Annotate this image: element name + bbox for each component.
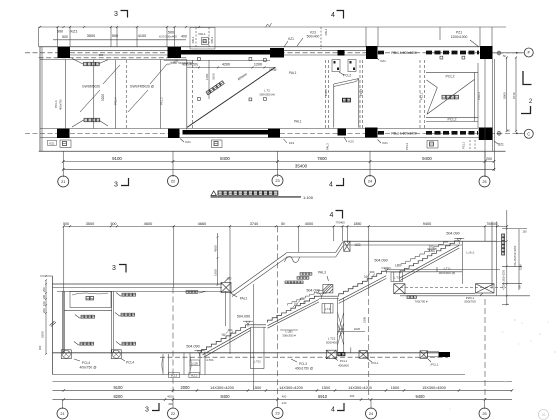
svg-text:PAL1: PAL1 [198, 32, 205, 36]
left bay mid wall double [111, 291, 113, 352]
section right wall of left bay [225, 291, 227, 326]
below ground wall brackets second [183, 353, 185, 375]
svg-text:L.T2: L.T2 [394, 276, 400, 280]
svg-text:504.090: 504.090 [374, 258, 387, 262]
stair flight trapezoid outline mid bay [333, 84, 335, 128]
svg-text:KZ1: KZ1 [382, 141, 388, 145]
svg-text:2600: 2600 [41, 331, 45, 338]
svg-text:1850: 1850 [354, 222, 362, 226]
svg-text:GWSFM5026 @: GWSFM5026 @ [130, 85, 155, 89]
left wall top stub [40, 275, 53, 277]
PAL1 slab outline above beam [190, 28, 215, 50]
svg-text:4200: 4200 [222, 63, 230, 67]
plan outline top wall [39, 46, 480, 48]
svg-text:PWL3: PWL3 [477, 92, 481, 100]
stair flight 4 background parallel steps [401, 242, 448, 266]
svg-text:400x1750 @: 400x1750 @ [295, 366, 313, 370]
section marker 2 upper elbow [523, 71, 532, 85]
svg-text:4100: 4100 [138, 34, 146, 38]
svg-text:4: 4 [331, 407, 335, 414]
svg-text:PCL4: PCL4 [126, 360, 134, 364]
svg-text:5200: 5200 [101, 94, 105, 101]
svg-text:9100: 9100 [112, 156, 122, 161]
svg-text:PAL1: PAL1 [289, 71, 297, 75]
svg-text:7800: 7800 [317, 156, 327, 161]
svg-text:8400: 8400 [220, 156, 230, 161]
axis circle 22 plan [168, 176, 179, 187]
svg-text:LB1: LB1 [395, 263, 401, 267]
svg-text:400(600: 400(600 [338, 363, 349, 367]
section grid thin verticals [63, 284, 65, 354]
below ground wall brackets left pair [162, 354, 164, 375]
svg-text:PCL1: PCL1 [359, 88, 363, 96]
pile cap line [53, 374, 466, 376]
grey notes left of PAL3 [300, 273, 312, 276]
svg-text:2226: 2226 [354, 327, 361, 331]
level flag 504.090 at landing 1 [237, 315, 253, 327]
axis target cross C [497, 131, 501, 135]
svg-text:KZ1: KZ1 [49, 141, 55, 145]
svg-text:500: 500 [63, 222, 69, 226]
svg-text:24: 24 [368, 180, 372, 184]
svg-text:6CL2: 6CL2 [191, 374, 198, 378]
box LT2 at mid landing [391, 272, 403, 282]
plan outline top wall inner line left bay [39, 57, 187, 59]
svg-text:PCL3: PCL3 [160, 97, 164, 105]
svg-text:3: 3 [145, 407, 149, 414]
right room diagonal [427, 79, 475, 114]
axis circle 23 section [272, 408, 283, 419]
axis circle 23 plan [272, 175, 283, 186]
axis circle C [524, 129, 533, 138]
svg-text:4: 4 [330, 212, 334, 219]
svg-text:1150: 1150 [205, 73, 209, 80]
svg-text:L12B: L12B [192, 361, 198, 365]
svg-text:3500: 3500 [86, 222, 94, 226]
svg-text:9400: 9400 [423, 222, 431, 226]
left vertical dimension chain [45, 280, 47, 354]
left bay small grey texts row 1 [122, 293, 136, 296]
stair flight 4 slab double line [400, 245, 459, 277]
crossed box PWL1 [476, 284, 495, 293]
section top dimension line [64, 225, 507, 227]
section marker 2 lower elbow [521, 106, 531, 114]
section roof slab lines [53, 283, 223, 285]
break squiggle on top dim line [266, 23, 272, 28]
stair flight 4 top steps [400, 241, 459, 274]
mid room stirrup boxes [198, 58, 201, 61]
plan top dimension line row 2 [53, 39, 186, 41]
svg-text:4: 4 [331, 12, 335, 19]
mid landing lines right [386, 269, 500, 271]
svg-text:KZ1: KZ1 [380, 59, 386, 63]
right room outline [426, 71, 478, 73]
svg-text:100: 100 [42, 301, 46, 306]
svg-text:3: 3 [114, 182, 118, 189]
svg-text:22: 22 [171, 180, 175, 184]
svg-text:9100: 9100 [113, 385, 123, 390]
ground right section boxes PCL1 [420, 351, 428, 359]
svg-text:4660: 4660 [198, 222, 206, 226]
svg-text:1500: 1500 [391, 386, 399, 390]
dims 400 2226 at mid band [338, 331, 366, 333]
beam bottom black bar [183, 130, 270, 135]
svg-text:300: 300 [370, 270, 375, 274]
right vertical dimension 6710 [515, 58, 517, 132]
svg-text:6710: 6710 [512, 92, 516, 99]
svg-text:770400: 770400 [335, 220, 345, 224]
svg-text:14X300=4200: 14X300=4200 [279, 386, 303, 390]
stair flight 2 background parallel steps [288, 290, 324, 305]
plan top beam thin edge pair left bay [70, 49, 168, 51]
svg-text:6910: 6910 [318, 394, 328, 399]
svg-text:504.090: 504.090 [446, 231, 459, 235]
svg-text:F: F [527, 50, 530, 55]
svg-text:25: 25 [482, 180, 486, 184]
svg-text:300: 300 [228, 328, 233, 332]
left bay room box 1 [70, 292, 111, 308]
svg-text:L.T01: L.T01 [254, 359, 261, 363]
svg-text:1500: 1500 [253, 386, 261, 390]
mid level slab horizontal double [286, 252, 335, 254]
svg-text:C: C [527, 131, 530, 136]
small slab boxes with bar marks [332, 60, 340, 72]
svg-text:6CL3: 6CL3 [171, 374, 178, 378]
svg-text:100: 100 [42, 295, 46, 300]
svg-text:PCL4: PCL4 [114, 97, 118, 105]
mid room dim line [187, 66, 276, 68]
svg-text:PCL1: PCL1 [419, 92, 423, 100]
upper landing slab lines [344, 240, 497, 242]
svg-text:PAL3: PAL3 [326, 143, 330, 150]
plan bottom boundary line [39, 150, 506, 152]
column KZ1 top row 5 [366, 46, 378, 59]
svg-text:L↓B↓1: L↓B↓1 [466, 250, 475, 254]
stair flight 3 steps [339, 271, 387, 296]
svg-text:PCL4: PCL4 [82, 361, 90, 365]
svg-text:8400: 8400 [220, 394, 230, 399]
svg-text:1200: 1200 [254, 63, 262, 67]
ramp incline to upper landing [231, 253, 286, 293]
svg-text:3: 3 [112, 265, 116, 272]
svg-text:PCL2: PCL2 [343, 74, 351, 78]
svg-text:400x750 @: 400x750 @ [80, 365, 98, 369]
svg-text:500: 500 [57, 29, 63, 33]
left bay rebar labels row 2 [81, 315, 95, 318]
stair flight 1 steps [202, 325, 251, 353]
svg-text:500(700: 500(700 [464, 300, 476, 304]
svg-text:150): 150) [429, 249, 435, 253]
svg-text:2306: 2306 [363, 317, 367, 323]
section bottom dimension row 1 [53, 389, 513, 391]
column KZ1 bottom right corner [479, 128, 493, 141]
svg-text:504.090: 504.090 [186, 344, 199, 348]
svg-text:KZ1: KZ1 [185, 140, 191, 144]
landing 1 lines [251, 324, 267, 326]
svg-text:K23 500x400: K23 500x400 [159, 35, 177, 39]
mid room left wall [186, 60, 188, 130]
svg-text:LB3: LB3 [355, 243, 361, 247]
svg-text:500x400: 500x400 [307, 35, 320, 39]
column KZ1 bottom row 2 [168, 129, 180, 138]
left room rebar label bottom dark [84, 118, 100, 121]
section bottom dimension row 2 [53, 399, 513, 401]
plan top extension verticals [57, 27, 59, 47]
svg-text:300x350 #: 300x350 # [282, 333, 296, 337]
svg-text:K23: K23 [348, 140, 354, 144]
svg-text:GWSM5026: GWSM5026 [82, 85, 100, 89]
svg-text:PAL3: PAL3 [318, 271, 326, 275]
svg-text:23: 23 [275, 412, 279, 416]
svg-text:400: 400 [282, 395, 287, 399]
column KZ1 top row 2 [168, 47, 182, 58]
svg-text:5900: 5900 [503, 92, 507, 99]
svg-text:1200x1000: 1200x1000 [451, 35, 468, 39]
svg-text:KZ1: KZ1 [289, 141, 295, 145]
svg-text:15X300=4500: 15X300=4500 [422, 386, 446, 390]
svg-text:PAL1: PAL1 [210, 36, 214, 43]
svg-text:400: 400 [167, 395, 172, 399]
svg-text:4600: 4600 [144, 222, 152, 226]
svg-text:21: 21 [61, 180, 65, 184]
left room leader diagonals [103, 65, 120, 84]
svg-text:150+15X150=2250: 150+15X150=2250 [514, 245, 517, 267]
right wall verticals and extension lines [492, 59, 494, 151]
svg-text:3@: 3@ [364, 274, 368, 278]
small beam label boxes on pile line [169, 373, 180, 378]
axis circle 21 plan [58, 176, 69, 187]
ground crossed box left of axis 24 [326, 350, 336, 359]
svg-text:23: 23 [275, 179, 279, 183]
svg-text:400 (4050): 400 (4050) [182, 63, 197, 67]
label box LB2 and LT01 [190, 360, 200, 365]
column K23 bottom small [338, 129, 347, 136]
svg-text:3: 3 [114, 11, 118, 18]
svg-text:L T2: L T2 [325, 307, 331, 311]
axis circle 21 section [57, 408, 68, 419]
plan left exterior wall [39, 47, 41, 152]
svg-text:↓PCL1: ↓PCL1 [429, 362, 438, 366]
axis centreline F row [25, 52, 505, 54]
svg-text:1:100: 1:100 [303, 195, 314, 200]
upper right room verticals [462, 241, 464, 284]
svg-text:4000: 4000 [305, 222, 313, 226]
svg-text:4: 4 [329, 182, 333, 189]
level flag 504.090 LB1 at mid landing [374, 258, 391, 273]
beam PZL1-1 800x1000 top dashed thick [378, 51, 384, 55]
svg-text:1500: 1500 [322, 386, 330, 390]
right vertical dimension 5900 [506, 58, 508, 132]
svg-text:PAL1: PAL1 [294, 120, 302, 124]
svg-text:PAL1: PAL1 [324, 89, 328, 96]
svg-text:KZ1: KZ1 [71, 29, 78, 33]
svg-text:200: 200 [486, 157, 492, 161]
axis circle 26 faint watermark [539, 410, 549, 420]
axis circle 25 section [479, 408, 490, 419]
left bay inner wall double [62, 291, 64, 352]
plan top beam thin edge pair mid [284, 49, 366, 51]
stair opening diagonal [187, 67, 275, 127]
svg-text:PCL3: PCL3 [405, 143, 409, 150]
upper landing left step down [336, 242, 343, 253]
svg-text:PCL2: PCL2 [446, 75, 455, 79]
axis extension stubs plan [62, 151, 64, 177]
svg-text:B21: B21 [498, 143, 504, 147]
svg-text:=2250≈15Q=2250: =2250≈15Q=2250 [502, 269, 505, 290]
svg-text:504.090: 504.090 [306, 289, 319, 293]
plan bottom wall lines [40, 128, 478, 130]
stair flight 1 slab double line [203, 328, 251, 355]
svg-text:9400: 9400 [415, 394, 425, 399]
column KZ1 bottom row 5 [365, 128, 378, 138]
svg-text:PCL2: PCL2 [448, 118, 457, 122]
dim baseline above row1 [53, 381, 513, 383]
svg-text:150: 150 [522, 229, 527, 233]
mid support band with cross hatch [337, 298, 339, 353]
dashed pair PCL1 vertical [359, 60, 361, 128]
svg-text:700: 700 [518, 285, 522, 290]
svg-text:8200: 8200 [113, 394, 123, 399]
plan dimension row 2 line total 35400 [63, 168, 494, 170]
svg-text:500: 500 [111, 222, 117, 226]
labels below bottom beam row [48, 140, 57, 145]
below ground wall third [199, 352, 201, 375]
mid room vertical dim 1150 [208, 60, 210, 99]
svg-text:PCL3: PCL3 [299, 362, 307, 366]
svg-text:200: 200 [42, 287, 46, 292]
svg-text:9400: 9400 [422, 156, 432, 161]
axis circle 22 section [168, 408, 179, 419]
svg-text:700(700 #: 700(700 # [414, 299, 427, 303]
svg-text:PZ1: PZ1 [456, 31, 462, 35]
svg-text:14X300=4200: 14X300=4200 [210, 386, 234, 390]
section top extension verticals [63, 226, 65, 284]
svg-text:860: 860 [99, 53, 104, 57]
column KZ1 bottom row 1 [57, 129, 70, 138]
stair flight 2 slab double line [268, 299, 320, 325]
dark label tizhu ground [338, 353, 345, 356]
axis circle 24 section [366, 408, 377, 419]
plan dimension row 1 line [63, 161, 494, 163]
foundation dashed axis line [160, 356, 448, 358]
beam PAL1 crossed box on roof [221, 283, 231, 293]
box LT2 under landing [322, 304, 333, 314]
svg-text:PZL1-1 800x1000: PZL1-1 800x1000 [391, 131, 417, 135]
svg-text:PZL1-1 800x1000: PZL1-1 800x1000 [391, 51, 417, 55]
stair flight 3 slab double line [339, 276, 387, 301]
svg-text:3740: 3740 [250, 222, 258, 226]
svg-text:400x750: 400x750 [59, 99, 63, 110]
ground floor line [53, 352, 451, 354]
left room rebar label top dark [84, 62, 100, 65]
svg-text:400: 400 [168, 402, 173, 406]
svg-text:504.090: 504.090 [237, 315, 250, 319]
svg-text:35400: 35400 [295, 164, 308, 169]
level flag 504.090 mid [306, 289, 326, 299]
break squiggle on landing [285, 257, 300, 263]
grey note left of PAL1 box [186, 291, 198, 294]
plan top beam dim line below black bar [164, 60, 270, 62]
svg-text:3500: 3500 [87, 34, 95, 38]
section left wall [52, 276, 54, 375]
column K23 top small [338, 50, 345, 56]
beam PAL3 crossed box mid hatched [323, 284, 333, 293]
column section PCL4 left crossed circle [61, 350, 71, 359]
axis circle 24 plan [365, 176, 376, 187]
svg-text:2000: 2000 [180, 385, 190, 390]
left wall break mark [50, 321, 55, 326]
svg-text:400: 400 [38, 345, 42, 350]
svg-text:26: 26 [542, 413, 546, 417]
svg-text:22: 22 [171, 412, 175, 416]
svg-text:25: 25 [482, 412, 486, 416]
svg-text:400: 400 [350, 394, 355, 398]
svg-text:300X300 (#): 300X300 (#) [439, 271, 456, 275]
column section PCL4 mid crossed circle [111, 350, 121, 359]
crossed box LB3 [344, 241, 350, 251]
axis target cross F [497, 51, 501, 55]
stair opening label rotated dark [206, 81, 224, 95]
svg-text:14X300=4200: 14X300=4200 [348, 386, 372, 390]
landing 1 support band LT01 [250, 327, 252, 368]
svg-text:KZ1: KZ1 [288, 37, 294, 41]
svg-text:21: 21 [60, 412, 64, 416]
svg-text:400: 400 [339, 327, 344, 331]
dashed pair PCL1 vertical right [419, 60, 421, 128]
svg-text:PAL1: PAL1 [240, 296, 248, 300]
plan title dark with underline [211, 191, 216, 196]
column KZ1 top row 3 [270, 48, 284, 58]
left bay door head line [64, 310, 111, 312]
dark vertical note anchor length [502, 234, 505, 255]
column KZ1 top row 1 [58, 47, 71, 58]
right dimension verticals with rotated texts [506, 210, 508, 305]
column KZ1 top right corner [480, 46, 493, 59]
svg-text:200: 200 [42, 308, 46, 313]
svg-text:3@: 3@ [221, 332, 225, 336]
faint watermark specks bottom right [514, 319, 516, 321]
dark label tiban in trapezoid [343, 98, 351, 102]
level flag 504.090 top [446, 231, 464, 244]
stirrup boxes on right bay beam [440, 56, 443, 59]
svg-text:4.00: 4.00 [282, 402, 287, 405]
beam PZL1-1 800x1000 bottom dashed thick [378, 131, 384, 135]
left bay rebar labels row 3 [80, 342, 94, 345]
right dim short horizontals [496, 240, 507, 242]
svg-text:PAL1: PAL1 [191, 36, 195, 43]
landing between flight 2 and 3 [319, 295, 339, 297]
crossed box below LT2 [394, 284, 405, 294]
axis circle 25 plan [479, 176, 490, 187]
column KZ1 bottom row 3 [268, 129, 280, 138]
grey label tizhu1 700x700 [407, 296, 416, 299]
left room interior verticals [65, 60, 67, 129]
svg-text:500: 500 [62, 35, 68, 39]
ground crossed box right [359, 351, 368, 359]
right room floor lines [400, 293, 475, 295]
right side marks near column [494, 52, 525, 54]
svg-text:3350: 3350 [212, 73, 216, 80]
svg-text:↓LT3↓: ↓LT3↓ [443, 266, 452, 270]
axis centreline C row [25, 132, 522, 134]
dashed line through right rooms [400, 287, 506, 289]
level flag 504.090 at flight 1 base [186, 344, 204, 356]
svg-text:1560: 1560 [519, 264, 523, 270]
svg-text:80: 80 [281, 222, 285, 226]
svg-text:PCL1: PCL1 [371, 361, 379, 365]
svg-text:PCL1: PCL1 [462, 142, 466, 149]
svg-text:√LT01: √LT01 [205, 358, 214, 362]
